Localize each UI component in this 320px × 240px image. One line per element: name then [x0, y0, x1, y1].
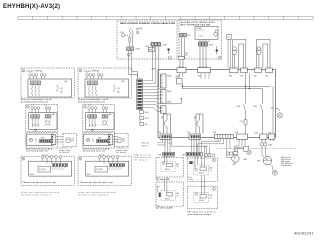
- thermal fuse 6LT: [57, 85, 59, 92]
- interface box: [29, 113, 57, 130]
- connector block: [108, 135, 112, 145]
- svg-text:9: 9: [80, 159, 81, 161]
- thermal protector Q1L: [232, 47, 236, 69]
- interface box: [86, 113, 114, 130]
- circled ref 1: [168, 56, 171, 59]
- option module row2a col2: [83, 105, 115, 132]
- wires X2M strip to PCB conn: [200, 46, 206, 68]
- svg-text:4D082241: 4D082241: [294, 231, 314, 235]
- top connector X6A: [254, 68, 262, 77]
- wire marker block: [189, 161, 192, 164]
- terminal stems: [87, 76, 102, 79]
- terminal numbers: [99, 154, 104, 156]
- dashed enclosure: [83, 132, 115, 148]
- svg-text:1 2 3: 1 2 3: [29, 72, 32, 74]
- left connector X803A: [161, 90, 172, 104]
- wire N: [131, 35, 133, 38]
- terminal stems: [32, 109, 50, 112]
- bottom connector X11M: [235, 132, 248, 141]
- wire K3R feed: [166, 99, 181, 104]
- terminal stems: [30, 76, 45, 79]
- valve symbol: [103, 121, 107, 125]
- svg-text:X6YB: X6YB: [145, 118, 149, 120]
- crossing wires: [108, 167, 123, 170]
- valve M5S assembly: [194, 193, 213, 203]
- connector strip: [97, 139, 108, 143]
- note row3 col2: [78, 191, 116, 197]
- svg-text:K1R: K1R: [237, 106, 241, 108]
- cutout mark: [117, 91, 120, 94]
- option box 4a dashed: [156, 182, 184, 206]
- wires 3b to 4b: [202, 175, 205, 195]
- pump inlet connector: [233, 151, 237, 154]
- svg-text:bedradingsaansluiting kit: bedradingsaansluiting kit: [21, 100, 48, 103]
- caption pump col1: [60, 147, 72, 154]
- legend text block: [281, 156, 293, 167]
- svg-text:4: 4: [23, 70, 24, 72]
- terminal strip X2M (3 pole dark): [199, 42, 208, 46]
- connector X6YB: [140, 117, 149, 121]
- svg-text:X2M: X2M: [136, 49, 140, 51]
- circled 1b: [212, 187, 215, 190]
- terminals 1-5: [41, 156, 44, 159]
- module A dashed enclosure: [117, 21, 177, 59]
- svg-text:M2P: DHW pomp: M2P: DHW pomp: [281, 163, 293, 165]
- wires: [89, 85, 96, 88]
- caption module row1 col2: [78, 98, 109, 103]
- PS1 power supply: [176, 77, 183, 84]
- svg-text:1 2 3 4: 1 2 3 4: [199, 35, 204, 37]
- wire loop outer X6A-X5A: [256, 39, 270, 68]
- svg-text:8: 8: [23, 159, 24, 161]
- svg-text:1N~: 1N~: [176, 195, 179, 197]
- earth symbol: [34, 130, 37, 132]
- crossing wires: [51, 167, 66, 170]
- svg-text:X708A: X708A: [196, 27, 202, 30]
- caption inside 3b: [189, 177, 194, 181]
- thermostat interface box: [29, 161, 72, 176]
- svg-text:1N~: 1N~: [136, 30, 139, 32]
- dashed enclosure: [83, 105, 115, 132]
- strip X4M: [182, 152, 203, 156]
- terminals 1-5: [98, 156, 101, 159]
- svg-text:1~: 1~: [266, 163, 268, 165]
- svg-text:0.75mm: 0.75mm: [189, 179, 194, 181]
- side note X6Y wires: [134, 154, 151, 162]
- wires X10M down: [262, 141, 265, 143]
- harness stem down: [139, 110, 141, 123]
- bottom connector X7M: [187, 132, 201, 141]
- svg-text:X1,2M: X1,2M: [39, 169, 45, 171]
- wire L: [129, 35, 131, 38]
- option pump box col1: [63, 134, 77, 147]
- svg-text:FU2: FU2: [240, 121, 243, 123]
- relay contact K5R: [253, 89, 262, 134]
- option module row2a col1 (solar kit): [26, 105, 58, 132]
- svg-text:4 5: 4 5: [41, 72, 43, 74]
- caption pump col2: [117, 147, 129, 154]
- option box 3b dashed: [187, 158, 217, 181]
- wires X5M N5T down to PCB: [180, 56, 183, 68]
- earth stud: [167, 48, 169, 50]
- sensor symbol: [86, 138, 89, 141]
- svg-text:M3S bk: M3S bk: [165, 169, 170, 171]
- terminal pair: [102, 115, 105, 118]
- terminal stems: [89, 109, 107, 112]
- thermal fuse 6LT: [114, 85, 116, 92]
- connector strip: [40, 139, 51, 143]
- option module row1 col1 (backup heater kit): [21, 68, 74, 98]
- plug pair K1M: [205, 154, 216, 159]
- circled ref number: [22, 157, 25, 160]
- wires X11M to pump M1P: [234, 141, 245, 156]
- svg-text:alleen bij 2W: alleen bij 2W: [160, 208, 172, 210]
- field wiring dashed boundary: [216, 147, 296, 149]
- svg-text:1N~: 1N~: [123, 141, 126, 143]
- valve M4S assembly: [159, 191, 179, 201]
- svg-text:EHYHBH(X)-AV3(2): EHYHBH(X)-AV3(2): [3, 4, 60, 10]
- option box 4b dashed: [187, 186, 217, 209]
- svg-text:M1P: M1P: [233, 164, 236, 166]
- svg-text:1N~: 1N~: [72, 141, 75, 143]
- svg-text:M5S bk: M5S bk: [199, 200, 204, 202]
- relay K3R body: [162, 114, 170, 134]
- svg-text:N5T: N5T: [185, 55, 188, 57]
- terminals 1-5: [29, 74, 32, 77]
- option module row2b col2: [83, 132, 119, 148]
- heater kit box: [28, 79, 72, 97]
- terminal strip: [30, 81, 33, 85]
- wire loop outer X14A-X9A: [233, 39, 246, 68]
- circled ref number: [79, 69, 82, 72]
- conn stubs below X5M top: [201, 73, 209, 79]
- flow switch circle: [247, 150, 251, 154]
- svg-text:M4S: M4S: [176, 193, 179, 195]
- internal bus vertical: [181, 84, 183, 89]
- dashed enclosure: [78, 156, 131, 185]
- circled ref number: [84, 106, 87, 109]
- top connector X2M: [177, 66, 187, 77]
- option module row1 col2: [78, 68, 131, 98]
- caption row2 col1: [26, 147, 53, 152]
- wires pcb pins down: [200, 39, 209, 42]
- feed wire conn to bus: [246, 73, 250, 89]
- wire labels left of X6M: [142, 143, 150, 148]
- wire X6M to K1M plugs: [172, 141, 210, 154]
- svg-text:1~: 1~: [234, 160, 236, 162]
- svg-text:aansluiting optie kit: aansluiting optie kit: [26, 150, 48, 153]
- svg-text:50Hz: 50Hz: [136, 31, 140, 33]
- svg-text:M5S: M5S: [210, 195, 213, 197]
- option module row3 col2: [78, 154, 131, 185]
- svg-text:A1P: A1P: [152, 68, 157, 71]
- connector on wire pair: [178, 57, 184, 60]
- wires module A X2M to harness: [128, 59, 137, 79]
- wire loop inner X6A-X5A: [263, 44, 268, 68]
- svg-text:7: 7: [84, 107, 85, 109]
- terminal strip: [88, 115, 91, 118]
- note text X5M: [127, 54, 131, 58]
- thermostat box: [27, 134, 54, 145]
- strip X3M: [158, 143, 174, 157]
- svg-text:WAND LEVERING SPANNING VOEDING: WAND LEVERING SPANNING VOEDING AANSLUITE…: [120, 22, 176, 25]
- caption row2 col2: [83, 147, 110, 152]
- caption module row1 col1: [21, 98, 52, 103]
- earth symbol: [91, 130, 94, 132]
- terminal numbers: [42, 154, 47, 156]
- svg-text:1N~: 1N~: [210, 170, 213, 172]
- stubs below X21A: [216, 139, 219, 142]
- pump symbol: [117, 138, 122, 143]
- conn stubs below X2M top: [180, 73, 183, 78]
- terminals 1-5: [86, 74, 89, 77]
- bottom connector X6M: [158, 132, 172, 141]
- relay K4R body: [195, 114, 203, 134]
- top connector X5M: [198, 66, 211, 77]
- relay contact K1R: [237, 87, 246, 134]
- wires X21A to X4M: [198, 139, 224, 153]
- svg-text:Thermostat (wired) aansl. opt.: Thermostat (wired) aansl. opt.: [23, 181, 58, 184]
- earth sensor circle: [270, 164, 277, 175]
- bell contact: [214, 32, 218, 36]
- connector strip: [52, 164, 67, 167]
- wires X7M to X4M: [192, 141, 200, 153]
- svg-text:6: 6: [27, 107, 28, 109]
- circled 2: [156, 177, 159, 180]
- circled ref number: [79, 157, 82, 160]
- harness wires to module A and pcb connectors: [142, 60, 160, 111]
- connector X6YA: [140, 111, 150, 115]
- earth stud: [216, 49, 218, 51]
- earth circle right: [276, 109, 283, 119]
- svg-text:X5M: 3-4: X5M: 3-4: [142, 145, 148, 147]
- pump symbol: [66, 138, 71, 143]
- wires with ticks: [32, 118, 39, 127]
- thermostat interface box: [86, 161, 129, 176]
- terminal X2M (2 pole): [127, 47, 134, 51]
- pcb A1P outline: [158, 70, 276, 138]
- pcb A4P small: [244, 146, 249, 161]
- cutout mark: [60, 91, 63, 94]
- svg-text:Thermostat (wired) aansl. opt.: Thermostat (wired) aansl. opt.: [80, 181, 115, 184]
- wires: [32, 85, 39, 88]
- svg-text:M: M: [266, 158, 268, 161]
- wires into option 3b: [195, 146, 205, 169]
- terminal X1,2M: [95, 166, 108, 172]
- breaker contacts: [130, 30, 134, 35]
- svg-text:X2M: 1-2-3: X2M: 1-2-3: [142, 143, 150, 145]
- supply note text: [136, 27, 142, 35]
- pump M2P: [257, 157, 271, 165]
- valve M2S assembly: [194, 165, 213, 175]
- svg-text:M: M: [234, 157, 236, 160]
- fuse F1B: [129, 38, 131, 43]
- dashed enclosure: [114, 134, 128, 147]
- wires S1S down to X14A: [228, 39, 230, 68]
- wires from 2-pole down: [181, 37, 184, 59]
- wires to pump: [56, 137, 63, 142]
- svg-text:230V: 230V: [136, 33, 140, 35]
- svg-text:M4S bk: M4S bk: [165, 198, 170, 200]
- left connector X801A: [161, 74, 172, 88]
- option box 3a dashed: [156, 158, 184, 178]
- dashed enclosure: [26, 105, 58, 132]
- connector block S1S: [227, 34, 231, 39]
- wires X6M to X3M: [165, 141, 170, 153]
- terminal strip: [31, 115, 34, 118]
- terminal 2-pole left: [180, 33, 187, 37]
- svg-text:K3M: voeding: K3M: voeding: [281, 161, 290, 163]
- top connector X9A: [240, 68, 247, 77]
- wires to pump M2P: [262, 146, 265, 157]
- fuse FU2: [240, 119, 247, 125]
- terminal X1,2M: [38, 166, 51, 172]
- dashed enclosure: [63, 134, 77, 147]
- sensor symbol: [29, 138, 32, 141]
- wires X21A to pump: [227, 139, 232, 158]
- top connector X14A: [229, 68, 239, 77]
- caption below option 4b: [188, 210, 216, 215]
- coil symbol: [35, 138, 36, 142]
- fuse holders pair K3M: [260, 143, 272, 147]
- svg-text:M3S: M3S: [176, 164, 179, 166]
- module B dashed enclosure: [179, 20, 222, 59]
- svg-text:veldbekabeling: veldbekabeling: [281, 165, 291, 167]
- terminals 1-5: [31, 107, 34, 110]
- svg-text:NOTE: NOTE: [127, 54, 131, 56]
- wires with ticks: [89, 118, 96, 127]
- pcb box X708A: [195, 26, 218, 39]
- bus line lower: [182, 88, 262, 90]
- wire loop inner X14A-X9A: [239, 44, 244, 68]
- terminal strip X5M (3 pole): [151, 43, 161, 46]
- svg-text:X1,2M: X1,2M: [96, 169, 102, 171]
- svg-text:1N~: 1N~: [176, 166, 179, 168]
- wires from X5M strip down: [153, 46, 159, 60]
- circled ref number: [27, 106, 30, 109]
- coil symbol: [92, 138, 93, 142]
- terminal strip: [87, 81, 90, 85]
- thermal protector Q2L: [257, 47, 261, 69]
- connector strip: [109, 164, 124, 167]
- svg-text:aansluiting optie kit: aansluiting optie kit: [83, 150, 105, 153]
- svg-text:M2S: M2S: [210, 168, 213, 170]
- svg-text:K5R: K5R: [253, 106, 257, 108]
- option module row2b col1 (interface pcb): [26, 132, 63, 148]
- svg-text:5: 5: [80, 70, 81, 72]
- svg-text:M.P: M.P: [72, 139, 75, 141]
- bottom connector strip X21A: [213, 131, 234, 139]
- valve symbol: [46, 121, 50, 125]
- terminal numbers: [29, 72, 43, 74]
- bus line upper: [182, 86, 270, 88]
- connector nubs pump feed: [226, 152, 229, 155]
- wire bus right leg to X13A: [272, 87, 274, 134]
- terminal numbers: [88, 105, 104, 107]
- note row3 col1: [21, 191, 59, 197]
- heater coils: [88, 88, 96, 96]
- dashed enclosure: [21, 156, 74, 185]
- wires into option 3a: [165, 156, 167, 163]
- circled ref 1: [218, 56, 221, 59]
- wires X6M down-left: [157, 141, 165, 145]
- wire to X2M: [130, 35, 133, 47]
- svg-text:MET VOORKEUR kWh NET: MET VOORKEUR kWh NET: [181, 24, 212, 26]
- wires: [100, 158, 118, 163]
- option pump box col2: [114, 134, 128, 147]
- module B caption: [181, 21, 216, 26]
- svg-text:X2M: X2M: [163, 44, 167, 46]
- wires to border: [128, 51, 132, 59]
- thermostat box: [84, 134, 111, 145]
- pcb A8P: [149, 47, 155, 52]
- terminals 1-5: [88, 107, 91, 110]
- option module row3 col1 (thermostat): [21, 154, 74, 185]
- pump M1P: [232, 155, 239, 166]
- circled ref number: [22, 69, 25, 72]
- terminal numbers: [86, 72, 100, 74]
- circled 3: [156, 206, 159, 209]
- junction dots: [245, 86, 246, 87]
- svg-text:bedradingsaansluiting kit: bedradingsaansluiting kit: [78, 100, 105, 103]
- svg-text:1N~: 1N~: [210, 197, 213, 199]
- svg-text:M.P: M.P: [123, 139, 126, 141]
- svg-text:1 2 3: 1 2 3: [86, 72, 89, 74]
- heater kit box: [85, 79, 129, 97]
- circled 1: [212, 159, 215, 162]
- wires to pump: [113, 137, 119, 142]
- valve M3S assembly: [161, 161, 179, 171]
- svg-text:X2M: X2M: [209, 44, 213, 46]
- dashed enclosure: [26, 132, 58, 148]
- wires: [43, 158, 61, 163]
- bottom connector X13A: [268, 131, 275, 140]
- connector block: [51, 135, 55, 145]
- svg-text:M2S bk: M2S bk: [199, 173, 204, 175]
- connector X6Y: [140, 123, 149, 127]
- dashed enclosure: [21, 68, 74, 98]
- top connector X5A: [265, 68, 272, 77]
- svg-text:M2P: M2P: [257, 160, 260, 162]
- top position ruler bar: [18, 16, 313, 19]
- terminal numbers: [31, 105, 47, 107]
- wires 3a to 4a: [157, 177, 167, 193]
- terminal pair: [45, 115, 48, 118]
- left connector X804A: [161, 100, 172, 113]
- harness connector strip X5M dark: [137, 79, 143, 110]
- labels X5M N5T: [185, 53, 189, 57]
- svg-text:4 5: 4 5: [98, 72, 100, 74]
- heater coils: [31, 88, 39, 96]
- dashed enclosure: [78, 68, 131, 98]
- bottom connector X10M: [254, 132, 267, 140]
